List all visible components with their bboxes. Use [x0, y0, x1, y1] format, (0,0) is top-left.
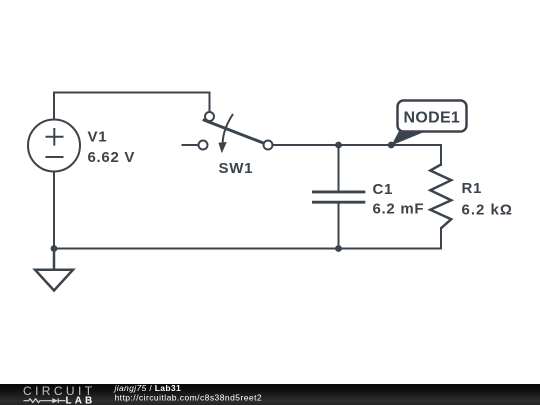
svg-text:LAB: LAB	[66, 396, 96, 405]
resistor R1	[430, 165, 451, 229]
label V1 value	[88, 129, 136, 166]
capacitor C1	[312, 192, 365, 202]
label C1 value	[373, 181, 425, 218]
junction dot at C1 bottom	[335, 245, 342, 252]
wire: R1 bottom lead	[440, 228, 442, 249]
node NODE1 callout box	[398, 101, 467, 132]
junction dot at ground	[51, 245, 58, 252]
junction dot at C1 top	[335, 142, 342, 149]
wire: switch right to node and corner	[273, 144, 442, 146]
wire top: V1 top to switch top	[54, 93, 210, 120]
svg-text:jiangj75 / Lab31: jiangj75 / Lab31	[114, 383, 182, 393]
footer bar	[0, 384, 540, 405]
wire: V1 bottom lead	[53, 172, 55, 249]
switch SW1 toggle arrow	[218, 114, 233, 153]
wire: right branch top lead to R1	[440, 145, 442, 165]
wire: C1 bottom lead	[338, 204, 340, 249]
node NODE1 dot	[388, 142, 395, 149]
switch SW1 bar	[203, 120, 264, 144]
voltage source V1	[28, 120, 80, 172]
switch SW1	[199, 112, 273, 150]
svg-text:http://circuitlab.com/c8s38nd5: http://circuitlab.com/c8s38nd5reet2	[115, 393, 263, 403]
ground	[35, 249, 73, 291]
CircuitLab logo circuit doodle (resistor + diode)	[24, 398, 66, 403]
label R1 value	[462, 180, 513, 219]
wire bottom: ground rail	[54, 248, 441, 250]
node NODE1 callout pointer	[391, 131, 426, 146]
wire: switch left stub	[183, 144, 199, 146]
wire: C1 top lead	[338, 145, 340, 190]
